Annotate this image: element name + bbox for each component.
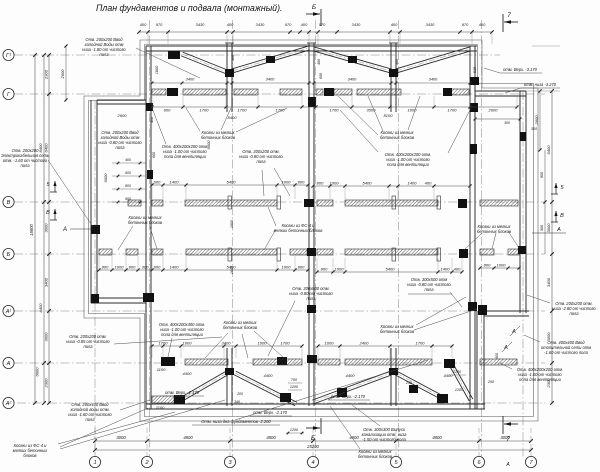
svg-text:6000: 6000 [35, 367, 40, 377]
svg-text:800: 800 [129, 265, 136, 270]
svg-text:пола: пола [83, 344, 93, 349]
svg-text:6400: 6400 [546, 145, 551, 155]
svg-text:5400: 5400 [386, 267, 396, 272]
svg-text:400: 400 [317, 58, 321, 65]
svg-text:300: 300 [142, 265, 149, 270]
svg-text:7: 7 [506, 436, 510, 443]
svg-text:отм. низа -3.270: отм. низа -3.270 [524, 82, 557, 87]
svg-text:3000: 3000 [44, 223, 49, 233]
svg-text:600: 600 [154, 180, 161, 185]
svg-text:пола: пола [424, 287, 434, 292]
svg-text:600: 600 [154, 265, 161, 270]
svg-text:8400: 8400 [228, 115, 238, 120]
svg-text:400: 400 [140, 22, 147, 27]
svg-text:2600: 2600 [488, 108, 499, 113]
svg-text:800: 800 [102, 265, 109, 270]
svg-text:3430: 3430 [256, 22, 265, 27]
svg-text:6400: 6400 [44, 143, 49, 153]
svg-text:1700: 1700 [330, 108, 340, 113]
svg-text:А: А [6, 361, 11, 367]
svg-text:А: А [62, 227, 67, 233]
svg-text:8400: 8400 [38, 143, 43, 153]
svg-text:пола: пола [306, 296, 316, 301]
svg-text:1700: 1700 [238, 108, 248, 113]
svg-text:3430: 3430 [352, 22, 361, 27]
svg-text:600: 600 [125, 197, 131, 201]
svg-text:340: 340 [234, 400, 240, 404]
svg-text:8400: 8400 [38, 303, 43, 313]
svg-text:1700: 1700 [448, 108, 458, 113]
svg-text:отм. Верх. -2.170: отм. Верх. -2.170 [165, 390, 200, 395]
svg-text:А: А [556, 227, 561, 233]
svg-text:600: 600 [152, 151, 156, 158]
svg-text:В: В [46, 210, 50, 216]
svg-text:1600: 1600 [230, 219, 234, 228]
svg-text:800: 800 [125, 184, 131, 188]
svg-text:970: 970 [319, 22, 326, 27]
svg-text:900: 900 [540, 171, 544, 178]
svg-text:400: 400 [227, 22, 234, 27]
svg-text:Б: Б [312, 4, 316, 11]
svg-text:отм. Верх. -2.170: отм. Верх. -2.170 [331, 394, 366, 399]
svg-text:3000: 3000 [44, 332, 49, 342]
svg-text:3400: 3400 [44, 277, 49, 287]
svg-text:2400: 2400 [359, 341, 370, 346]
svg-text:1400: 1400 [441, 267, 451, 272]
svg-text:1700: 1700 [416, 341, 426, 346]
svg-text:В: В [7, 200, 11, 206]
svg-text:бетонных блоков: бетонных блоков [380, 329, 415, 334]
svg-text:-1.60 от чистого пола: -1.60 от чистого пола [544, 350, 589, 355]
svg-text:3000: 3000 [116, 435, 126, 440]
svg-text:4400: 4400 [346, 373, 356, 378]
svg-text:4800: 4800 [183, 435, 193, 440]
svg-text:бетонных блоков: бетонных блоков [380, 135, 415, 140]
svg-text:1400: 1400 [170, 265, 180, 270]
svg-text:200: 200 [236, 392, 243, 396]
svg-text:4400: 4400 [264, 373, 274, 378]
svg-text:пола: пола [569, 311, 579, 316]
svg-text:бетонных блоков: бетонных блоков [201, 135, 236, 140]
svg-text:8100: 8100 [384, 113, 394, 118]
svg-text:Г¹: Г¹ [6, 53, 11, 59]
svg-text:970: 970 [285, 22, 292, 27]
svg-text:1200: 1200 [290, 428, 299, 432]
svg-text:пола для вентиляции: пола для вентиляции [519, 377, 561, 382]
svg-text:бетонных блоков: бетонных блоков [477, 229, 512, 234]
svg-text:4400: 4400 [183, 371, 193, 376]
svg-text:2600: 2600 [534, 115, 539, 126]
svg-text:3400: 3400 [266, 77, 275, 82]
svg-text:1000: 1000 [330, 181, 340, 186]
svg-text:600: 600 [125, 171, 131, 175]
svg-text:970: 970 [156, 22, 163, 27]
svg-text:3400: 3400 [222, 341, 232, 346]
svg-text:6000: 6000 [103, 173, 108, 183]
svg-text:970: 970 [462, 22, 469, 27]
svg-text:пола для вентиляции: пола для вентиляции [387, 162, 429, 167]
svg-text:1000: 1000 [325, 341, 335, 346]
svg-text:1000: 1000 [115, 265, 125, 270]
svg-text:бетонных блоков: бетонных блоков [358, 454, 393, 459]
svg-text:1100: 1100 [156, 405, 165, 410]
svg-text:пола: пола [20, 163, 30, 168]
svg-text:пола: пола [85, 417, 95, 422]
svg-text:А²: А² [5, 401, 13, 407]
svg-text:Б: Б [7, 252, 11, 258]
svg-text:400: 400 [301, 22, 308, 27]
svg-text:1400: 1400 [170, 180, 180, 185]
svg-text:1200: 1200 [453, 370, 462, 374]
svg-text:3400: 3400 [348, 77, 357, 82]
svg-text:400: 400 [425, 181, 432, 186]
svg-text:400: 400 [479, 22, 486, 27]
svg-text:3000: 3000 [546, 223, 551, 233]
svg-text:400: 400 [395, 58, 399, 65]
svg-text:1000: 1000 [335, 267, 345, 272]
svg-text:250: 250 [405, 381, 413, 385]
svg-text:В: В [560, 213, 564, 219]
svg-text:600: 600 [164, 108, 171, 113]
svg-text:1400: 1400 [408, 181, 418, 186]
svg-text:400: 400 [231, 54, 235, 61]
svg-text:2600: 2600 [60, 69, 65, 80]
svg-text:400: 400 [495, 352, 499, 359]
svg-text:1: 1 [93, 460, 96, 466]
svg-text:300: 300 [531, 127, 538, 131]
svg-text:1000: 1000 [258, 341, 268, 346]
svg-text:План фундаментов и подвала (мо: План фундаментов и подвала (монтажный). [96, 3, 282, 13]
svg-text:1000: 1000 [497, 263, 507, 268]
svg-text:300: 300 [504, 121, 510, 125]
svg-text:800: 800 [298, 180, 305, 185]
svg-text:7: 7 [507, 12, 511, 19]
svg-text:4800: 4800 [266, 435, 276, 440]
svg-text:пола: пола [256, 159, 266, 164]
svg-text:1700: 1700 [276, 108, 286, 113]
svg-text:блоков: блоков [23, 453, 37, 458]
svg-text:1700: 1700 [200, 108, 210, 113]
svg-text:800: 800 [484, 263, 491, 268]
svg-text:400: 400 [125, 158, 131, 162]
svg-text:пола: пола [115, 145, 125, 150]
svg-text:А: А [505, 462, 510, 468]
svg-text:800: 800 [317, 181, 324, 186]
svg-text:бетонных блоков: бетонных блоков [128, 220, 163, 225]
svg-text:4800: 4800 [432, 435, 442, 440]
svg-text:1200: 1200 [455, 388, 464, 392]
svg-text:мелких бетонных блоков: мелких бетонных блоков [274, 228, 324, 233]
svg-text:отм. Верх. -2.170: отм. Верх. -2.170 [253, 410, 288, 415]
svg-text:1800: 1800 [155, 65, 159, 74]
svg-text:400: 400 [391, 22, 398, 27]
svg-text:1000: 1000 [282, 265, 292, 270]
svg-text:800: 800 [298, 265, 305, 270]
svg-text:5400: 5400 [227, 265, 237, 270]
svg-text:2300: 2300 [44, 378, 49, 389]
svg-text:200: 200 [487, 380, 495, 384]
svg-text:пола для вентиляции: пола для вентиляции [164, 154, 206, 159]
svg-text:4400: 4400 [444, 373, 454, 378]
svg-text:400: 400 [150, 116, 154, 123]
svg-text:1000: 1000 [183, 341, 193, 346]
svg-text:3400: 3400 [186, 77, 195, 82]
svg-text:2300: 2300 [44, 69, 49, 80]
svg-text:4: 4 [311, 460, 314, 466]
svg-text:пола для вентиляции: пола для вентиляции [161, 332, 203, 337]
svg-text:-1.50 от чистого пола: -1.50 от чистого пола [362, 437, 407, 442]
svg-text:300: 300 [540, 224, 544, 231]
svg-text:5400: 5400 [363, 181, 373, 186]
svg-text:700: 700 [291, 378, 298, 382]
svg-text:3430: 3430 [426, 22, 435, 27]
svg-text:пола: пола [99, 52, 109, 57]
svg-text:910: 910 [473, 66, 477, 73]
svg-text:А¹: А¹ [5, 309, 12, 315]
svg-text:800: 800 [321, 267, 328, 272]
svg-text:3400: 3400 [546, 277, 551, 287]
svg-text:3430: 3430 [196, 22, 205, 27]
svg-text:1700: 1700 [281, 341, 291, 346]
svg-text:3400: 3400 [429, 77, 438, 82]
svg-text:1100: 1100 [157, 367, 166, 372]
svg-text:бетонных блоков: бетонных блоков [223, 325, 258, 330]
svg-text:1200: 1200 [290, 385, 299, 389]
svg-text:400: 400 [454, 267, 461, 272]
svg-text:Б: Б [311, 435, 315, 442]
svg-text:отм. Верх. -3.170: отм. Верх. -3.170 [503, 67, 538, 72]
svg-text:2600: 2600 [117, 113, 128, 118]
svg-text:5400: 5400 [227, 180, 237, 185]
svg-text:18600: 18600 [29, 224, 34, 236]
svg-text:600: 600 [319, 72, 323, 79]
